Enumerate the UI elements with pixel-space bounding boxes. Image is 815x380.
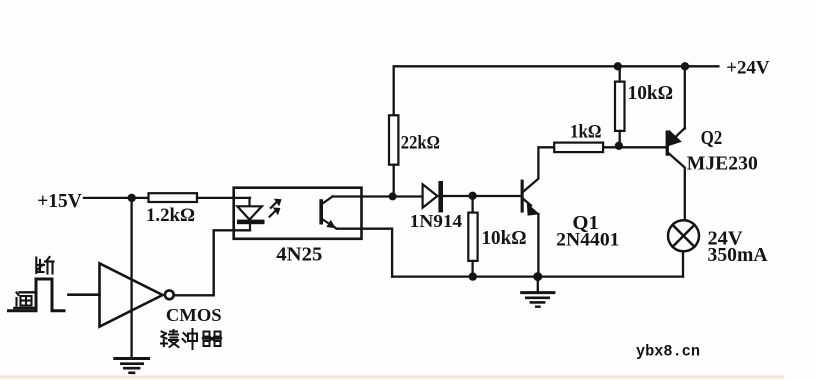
wire input to CMOS buffer xyxy=(69,293,100,296)
wire node C down to resistor R3 xyxy=(471,196,473,213)
transistor Q2 collector xyxy=(669,154,685,221)
node junction dot H (+24V rail / Q2 emitter) xyxy=(681,62,689,70)
node junction dot C (diode / 10k / Q1 base) xyxy=(468,192,476,200)
wire R3 bottom to rail xyxy=(471,261,473,277)
phototransistor emitter with arrow xyxy=(323,220,333,227)
LED triangle xyxy=(237,206,261,219)
svg-text:2N4401: 2N4401 xyxy=(556,230,619,251)
wire diode to node C and Q1 base xyxy=(443,195,521,197)
transistor Q2 base bar xyxy=(666,131,669,156)
+24V rail wire xyxy=(394,66,719,115)
svg-text:MJE230: MJE230 xyxy=(687,154,758,175)
svg-text:4N25: 4N25 xyxy=(276,244,322,266)
node junction dot A (+15V rail / buffer supply) xyxy=(128,194,136,202)
op-amp U2 CMOS buffer triangle xyxy=(100,263,163,326)
wire opto emitter to bottom rail xyxy=(334,227,393,277)
svg-text:CMOS: CMOS xyxy=(166,305,222,325)
wire lamp bottom to rail xyxy=(682,251,684,276)
node junction dot G (R4 / 1k / Q2 base) xyxy=(615,142,623,150)
svg-text:+24V: +24V xyxy=(726,58,770,79)
svg-text:Q2: Q2 xyxy=(701,127,723,149)
node junction dot E (Q1 emitter / ground / rail) xyxy=(533,272,542,281)
node junction dot B (22k / diode) xyxy=(389,192,397,200)
transistor Q2 emitter with arrow (from rail) xyxy=(684,66,686,128)
node junction dot F (+24V rail / R4) xyxy=(614,62,622,70)
label tong (on) hand-drawn xyxy=(15,292,34,308)
node junction dot D (R3 / bottom rail) xyxy=(469,272,477,280)
resistor R5 1k body xyxy=(554,143,603,153)
diode D1 1N914 triangle xyxy=(423,184,438,207)
wire R1 to opto box xyxy=(197,197,250,199)
ground (buffer) xyxy=(115,359,149,373)
transistor Q1 emitter with arrow xyxy=(523,199,531,206)
diode D1 cathode bar xyxy=(438,181,443,212)
bottom border strip xyxy=(0,376,784,380)
LED light arrows xyxy=(270,201,278,217)
svg-text:350mA: 350mA xyxy=(708,244,769,266)
wire +15V to junction and resistor R1 xyxy=(84,197,149,199)
pulse waveform symbol xyxy=(9,279,65,311)
bottom rail wire xyxy=(392,275,683,277)
lamp DS1 circle with X xyxy=(668,220,699,251)
label huanchongqi (buffer) hand-drawn xyxy=(161,329,221,349)
resistor R2 22k body xyxy=(389,115,398,164)
svg-text:1kΩ: 1kΩ xyxy=(570,122,602,143)
opto-coupler U1 4N25 box xyxy=(234,188,362,239)
transistor Q1 collector xyxy=(523,147,554,192)
ground (Q1 emitter) xyxy=(522,277,554,307)
resistor R3 10k body xyxy=(468,213,477,261)
label duan (off) hand-drawn xyxy=(36,257,53,274)
wire vertical from node A through buffer to ground xyxy=(130,198,132,358)
transistor Q1 base bar xyxy=(521,180,524,213)
wire R4 bottom to node G xyxy=(619,131,621,146)
svg-text:22kΩ: 22kΩ xyxy=(401,133,440,154)
wire R2 bottom to node B xyxy=(393,165,395,197)
resistor R1 1.2k body xyxy=(149,193,198,202)
svg-text:1N914: 1N914 xyxy=(410,211,463,231)
svg-text:+15V: +15V xyxy=(37,190,82,212)
svg-text:ybx8.cn: ybx8.cn xyxy=(636,343,700,361)
wire buffer output to opto LED cathode xyxy=(174,230,250,295)
LED inside opto: anode stub xyxy=(248,198,250,220)
LED cathode stub xyxy=(249,224,251,230)
wire R5 to Q2 base xyxy=(603,146,667,148)
svg-text:10kΩ: 10kΩ xyxy=(628,83,673,104)
resistor R4 10k body (Q2 base pullup) xyxy=(615,82,625,131)
wire rail to R4 top xyxy=(619,66,621,81)
phototransistor inside opto: base bar xyxy=(319,199,323,224)
wire opto collector to node B xyxy=(333,195,422,197)
inverter output bubble xyxy=(165,290,174,299)
phototransistor collector xyxy=(323,197,333,204)
svg-text:1.2kΩ: 1.2kΩ xyxy=(146,205,195,226)
LED cathode bar xyxy=(237,220,265,225)
wire Q1 emitter to bottom rail xyxy=(537,214,539,277)
svg-text:10kΩ: 10kΩ xyxy=(482,228,527,249)
